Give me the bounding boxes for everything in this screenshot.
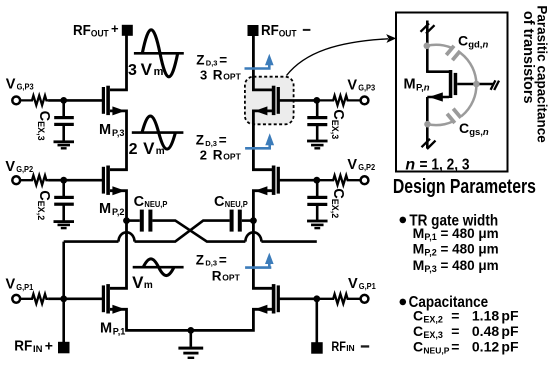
inset: drain wire with break <box>421 21 435 73</box>
svg-text:OPT: OPT <box>223 71 241 81</box>
sine 2Vm <box>129 116 184 158</box>
svg-text:EX,3: EX,3 <box>423 330 443 340</box>
svg-text:C: C <box>214 194 225 210</box>
svg-text:P,2: P,2 <box>112 207 125 217</box>
svg-text:IN: IN <box>346 343 355 353</box>
svg-text:= 480 μm: = 480 μm <box>441 242 499 257</box>
wire: right M_P,2 source to node to M_P,1 drain <box>253 191 272 289</box>
svg-text:V: V <box>6 277 16 293</box>
svg-text:Z: Z <box>196 252 204 267</box>
svg-text:C: C <box>413 338 423 354</box>
wire: node R1 down to RF_IN- pad <box>315 299 318 343</box>
capacitor C_EX,2 right <box>307 180 327 220</box>
wire: right M_P,1 gate to node R1 <box>279 297 317 300</box>
wire: right M_P,2 gate to node R2 <box>279 179 317 182</box>
transistor right M_P,1 <box>255 284 280 314</box>
transistor M_P,3 left <box>102 86 125 116</box>
svg-text:= 1, 2, 3: = 1, 2, 3 <box>420 156 470 173</box>
transistor right M_P,3 (inside dashed box) <box>255 86 280 116</box>
svg-text:G,P1: G,P1 <box>359 281 376 291</box>
ground (C_EX,2 right) <box>307 220 328 230</box>
svg-text:RF: RF <box>261 23 279 39</box>
svg-text:D,3: D,3 <box>205 259 217 268</box>
wire: M_P,3 source to M_P,2 drain <box>110 111 127 170</box>
svg-text:M: M <box>413 241 425 257</box>
bullet TR gate width <box>400 217 407 224</box>
wire: RF_OUT+ pad to M_P,3 drain <box>110 36 127 90</box>
svg-text:OUT: OUT <box>91 29 109 39</box>
label Z_D,3 = 2 R_OPT <box>196 133 242 163</box>
value C_EX,2 <box>413 308 519 325</box>
inset: C_gd,n capacitor plates <box>444 43 463 63</box>
svg-text:C: C <box>413 308 423 324</box>
terminal V_G,P3 left <box>12 97 20 105</box>
pad RF_IN- <box>311 342 323 354</box>
svg-text:P,2: P,2 <box>424 248 436 258</box>
svg-text:G,P3: G,P3 <box>17 81 34 91</box>
svg-text:+: + <box>45 337 53 353</box>
resistor R at V_G,P2 left <box>20 175 48 185</box>
svg-text:pF: pF <box>501 308 519 324</box>
svg-text:P,1: P,1 <box>113 327 126 337</box>
svg-text:M: M <box>404 77 416 93</box>
svg-text:G,P2: G,P2 <box>16 164 33 174</box>
svg-text:C: C <box>413 323 423 339</box>
value M_P,3 width <box>413 257 499 274</box>
node R1 <box>313 295 320 302</box>
svg-text:1.18: 1.18 <box>472 308 499 324</box>
svg-text:OPT: OPT <box>222 273 240 283</box>
resistor R at V_G,P2 right <box>317 175 361 185</box>
wire: resistor to M_P,1 gate <box>48 297 102 300</box>
svg-text:R: R <box>213 67 223 82</box>
svg-text:=: = <box>451 338 459 354</box>
terminal V_G,P2 left <box>12 176 20 184</box>
svg-text:V: V <box>348 276 358 292</box>
node: ground rail junction <box>187 327 194 334</box>
svg-text:= 480 μm: = 480 μm <box>441 258 499 273</box>
wire: bottom rail (M_P,1 sources to ground) <box>110 309 272 330</box>
wire: left C_NEU to right M_P,1 gate (cross) <box>152 221 245 242</box>
node: left drain node (C_NEU tap) <box>123 217 130 224</box>
svg-text:C: C <box>459 120 469 136</box>
terminal V_G,P1 right <box>361 295 369 303</box>
svg-text:3: 3 <box>128 62 137 79</box>
svg-text:P,n: P,n <box>416 82 430 93</box>
node L3 <box>60 97 67 104</box>
curved annotation arrow to inset <box>287 34 397 75</box>
inset box (parasitic capacitance) <box>396 13 508 172</box>
svg-text:RF: RF <box>14 338 32 354</box>
svg-text:RF: RF <box>331 339 346 354</box>
svg-text:V: V <box>5 159 15 175</box>
inset: gray node (drain side) <box>424 43 431 50</box>
svg-text:2: 2 <box>129 141 138 158</box>
svg-text:IN: IN <box>33 344 43 354</box>
svg-text:M: M <box>100 321 112 337</box>
svg-text:V: V <box>347 78 357 94</box>
svg-text:m: m <box>156 146 165 157</box>
svg-text:gs,n: gs,n <box>469 127 489 138</box>
terminal V_G,P3 right <box>361 97 369 105</box>
inset: gate wire with break <box>457 80 499 90</box>
svg-text:M: M <box>413 257 425 273</box>
svg-text:=: = <box>219 133 227 148</box>
ground (main) <box>178 330 203 359</box>
svg-text:pF: pF <box>501 323 519 339</box>
wire: cross wire down through node to RF_IN+ pad <box>62 242 65 343</box>
capacitor C_NEU,P left <box>127 210 153 232</box>
svg-text:EX,2: EX,2 <box>423 315 443 325</box>
svg-text:Design Parameters: Design Parameters <box>393 176 536 198</box>
label RF_IN- <box>331 339 369 354</box>
label RF_IN+ <box>14 337 53 354</box>
value C_NEU,P <box>413 338 519 355</box>
label Z_D,3 = 3 R_OPT <box>196 52 241 82</box>
svg-text:C: C <box>134 194 145 210</box>
svg-text:C: C <box>458 32 468 48</box>
svg-text:V: V <box>132 273 144 292</box>
svg-text:of transistors: of transistors <box>520 11 536 104</box>
svg-text:M: M <box>413 225 425 241</box>
capacitor C_EX,3 left <box>54 100 74 140</box>
svg-text:M: M <box>99 201 111 217</box>
svg-text:0.48: 0.48 <box>472 323 499 339</box>
resistor R at V_G,P3 right <box>317 96 361 106</box>
transistor M_P,2 left <box>102 166 125 196</box>
value M_P,2 width <box>413 241 499 258</box>
svg-text:RF: RF <box>73 23 91 39</box>
capacitor C_NEU,P right <box>230 210 254 232</box>
svg-text:3: 3 <box>200 67 207 82</box>
svg-text:=: = <box>219 52 227 67</box>
svg-text:R: R <box>213 148 223 163</box>
label RF_OUT- <box>261 23 310 39</box>
svg-text:+: + <box>111 21 119 36</box>
svg-text:0.12: 0.12 <box>472 338 499 354</box>
svg-text:m: m <box>144 280 153 291</box>
capacitor C_EX,2 left <box>54 180 74 220</box>
blue impedance arrow Z3 <box>245 253 274 268</box>
node L2 <box>60 177 67 184</box>
inset: gray node (source side) <box>424 121 431 128</box>
wire: RF_OUT- pad to right M_P,3 drain <box>253 36 272 90</box>
sine Vm <box>132 259 184 292</box>
svg-text:P,3: P,3 <box>424 264 436 274</box>
ground (C_EX,3 left) <box>54 140 75 149</box>
svg-text:pF: pF <box>501 338 519 354</box>
svg-text:OPT: OPT <box>223 152 241 162</box>
inset: C_gs,n arc <box>428 84 477 125</box>
svg-text:V: V <box>141 60 153 79</box>
resistor R at V_G,P1 left <box>20 294 48 304</box>
value C_EX,3 <box>413 323 519 340</box>
svg-text:D,3: D,3 <box>206 59 218 68</box>
terminal V_G,P1 left <box>12 295 20 303</box>
wire: hop to left gate node <box>64 240 119 243</box>
resistor R at V_G,P3 left <box>20 96 48 106</box>
wire hop over left column <box>119 232 135 241</box>
dashed highlight box around right M_P,3 <box>245 77 294 125</box>
pad RF_OUT- <box>248 25 259 36</box>
svg-text:V: V <box>6 76 16 92</box>
svg-text:gd,n: gd,n <box>468 39 488 50</box>
wire: M_P,2 source to node to M_P,1 drain <box>110 191 127 289</box>
transistor M_P,1 left <box>102 284 125 314</box>
ground (C_EX,2 left) <box>54 220 75 229</box>
inset: C_gd,n arc <box>427 45 477 84</box>
pad RF_IN+ <box>58 342 70 354</box>
inset: C_gs,n capacitor plates <box>444 106 463 126</box>
svg-text:P,1: P,1 <box>424 232 436 242</box>
node L1 (gate node) <box>60 295 67 302</box>
svg-text:2: 2 <box>200 148 207 163</box>
node: right drain node (C_NEU tap) <box>250 217 257 224</box>
svg-text:=: = <box>451 323 459 339</box>
inset: transistor M_P,n <box>427 70 457 102</box>
svg-text:NEU,P: NEU,P <box>144 199 167 209</box>
svg-text:=: = <box>219 252 227 267</box>
transistor right M_P,2 <box>255 166 280 196</box>
wire: right M_P,3 source to M_P,2 drain <box>253 111 272 170</box>
svg-text:V: V <box>143 139 155 158</box>
blue impedance arrow Z2 <box>245 133 274 148</box>
wire: resistor to M_P,3 gate <box>48 99 102 102</box>
resistor R at V_G,P1 right <box>317 294 361 304</box>
label RF_OUT+ <box>73 21 119 39</box>
svg-text:G,P2: G,P2 <box>358 162 375 172</box>
svg-text:Z: Z <box>196 133 204 148</box>
svg-text:NEU,P: NEU,P <box>225 199 248 209</box>
bullet Capacitance <box>400 299 407 306</box>
wire hop over right column <box>245 232 261 241</box>
svg-text:V: V <box>347 157 357 173</box>
svg-text:G,P3: G,P3 <box>358 83 375 93</box>
svg-text:=: = <box>451 308 459 324</box>
svg-text:NEU,P: NEU,P <box>423 345 449 355</box>
svg-text:Z: Z <box>196 52 204 67</box>
inset: source wire with break <box>422 97 436 149</box>
svg-text:m: m <box>154 66 164 78</box>
svg-text:n: n <box>405 156 415 173</box>
svg-text:= 480 μm: = 480 μm <box>441 226 499 241</box>
svg-text:G,P1: G,P1 <box>16 282 33 292</box>
blue impedance arrow Z1 <box>245 54 274 69</box>
label Z_D,3 = R_OPT <box>196 252 241 283</box>
svg-text:R: R <box>212 269 222 284</box>
wire: hop to right gate node <box>261 240 316 243</box>
svg-text:OUT: OUT <box>279 29 297 39</box>
pad RF_OUT+ <box>122 25 133 36</box>
ground (C_EX,3 right) <box>307 140 328 150</box>
wire: right M_P,3 gate to node R3 <box>279 99 317 102</box>
node R2 <box>313 177 320 184</box>
wire: right C_NEU to left M_P,1 gate (cross) <box>135 221 230 242</box>
capacitor C_EX,3 right <box>307 100 327 140</box>
inset: gray node (gate side) <box>473 81 480 88</box>
wire: resistor to M_P,2 gate <box>48 179 102 182</box>
svg-text:P,3: P,3 <box>112 128 125 138</box>
sine 3Vm <box>128 30 184 79</box>
node R3 <box>313 97 320 104</box>
value M_P,1 width <box>413 225 499 242</box>
svg-text:M: M <box>99 122 111 138</box>
terminal V_G,P2 right <box>361 176 369 184</box>
